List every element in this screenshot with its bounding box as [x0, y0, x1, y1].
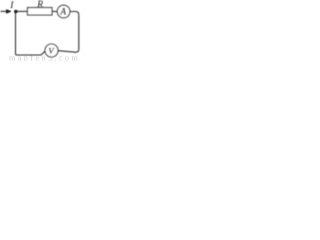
- resistor R: [28, 8, 53, 15]
- wire: voltmeter left to bottom-left corner: [16, 51, 46, 55]
- wire: junction to resistor left: [15, 10, 28, 12]
- svg-text:R: R: [36, 0, 43, 10]
- current arrow head: [6, 9, 11, 14]
- junction dot node: [14, 10, 17, 13]
- wire: left lead into junction: [1, 10, 11, 12]
- ammeter A1 circle: [57, 5, 70, 18]
- wire: bottom-right corner to voltmeter right: [58, 49, 79, 52]
- wire: ammeter right to top-right corner: [70, 12, 79, 15]
- wire: resistor right to ammeter left: [52, 10, 57, 12]
- wire: left vertical: [15, 11, 17, 53]
- svg-text:A: A: [60, 7, 67, 17]
- wire: right vertical: [78, 15, 80, 50]
- voltmeter V1 circle: [45, 44, 58, 57]
